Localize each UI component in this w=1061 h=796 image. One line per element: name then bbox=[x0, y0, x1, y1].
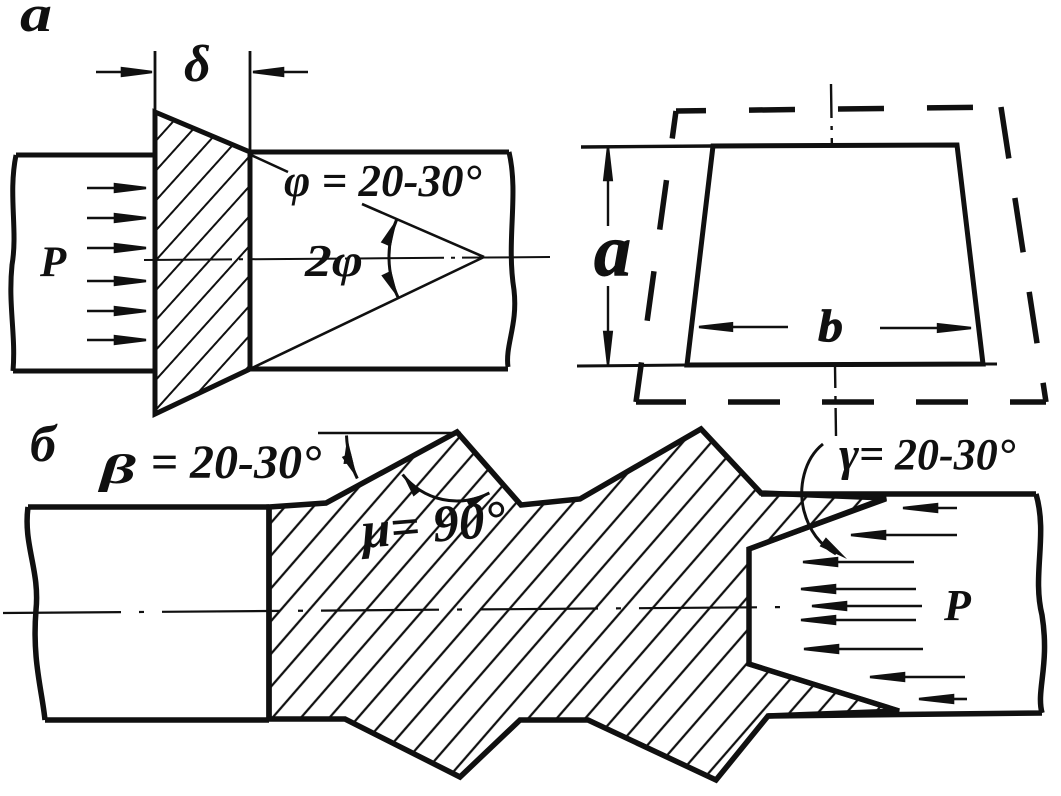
svg-text:b: b bbox=[818, 300, 843, 351]
wedge (hatched) of diagram a bbox=[155, 112, 250, 414]
svg-text:γ= 20-30°: γ= 20-30° bbox=[839, 428, 1016, 481]
2phi angle arc bbox=[389, 219, 398, 298]
vertical dash-dot centerline bbox=[831, 84, 836, 436]
dimension a arrows bbox=[604, 147, 612, 365]
force arrows P (right bar) bbox=[801, 504, 967, 703]
left bar of diagram a bbox=[11, 155, 154, 371]
svg-text:P: P bbox=[943, 581, 972, 630]
hatched middle piece (scarf joint) bbox=[269, 429, 899, 780]
right bar of diagram a bbox=[250, 152, 515, 369]
dashed trapezoid (initial blank outline) bbox=[636, 107, 1046, 402]
solid trapezoid (upset end) bbox=[687, 145, 983, 365]
svg-text:φ = 20-30°: φ = 20-30° bbox=[284, 156, 481, 206]
svg-text:2φ: 2φ bbox=[304, 235, 363, 286]
dimension b arrows bbox=[699, 323, 971, 332]
phi slant lines (wedge faces extended) bbox=[251, 155, 484, 368]
beta angle arc bbox=[347, 436, 358, 479]
2phi arc arrowheads bbox=[381, 219, 397, 247]
svg-text:P: P bbox=[39, 239, 67, 286]
thin reference line at peak bbox=[318, 432, 461, 434]
svg-text:a: a bbox=[20, 0, 52, 43]
joint vertical line bbox=[266, 507, 272, 720]
force arrows P (left bar) bbox=[87, 184, 146, 344]
extension lines for delta dimension bbox=[155, 51, 250, 150]
svg-text:б: б bbox=[30, 416, 58, 473]
centerline of diagram a bbox=[144, 257, 552, 260]
right bar of diagram b bbox=[761, 494, 1045, 716]
right bar wedge end bbox=[749, 499, 899, 711]
svg-text:a: a bbox=[594, 210, 631, 292]
gamma leader curved arrow bbox=[802, 444, 836, 554]
svg-text:= 20-30°: = 20-30° bbox=[141, 436, 321, 489]
centerline of diagram b bbox=[3, 607, 795, 613]
left bar of diagram b bbox=[27, 507, 269, 720]
delta dimension arrows bbox=[96, 68, 308, 76]
svg-text:β: β bbox=[97, 446, 136, 492]
svg-text:δ: δ bbox=[184, 36, 211, 93]
top extension line bbox=[581, 146, 713, 147]
mu angle arc bbox=[403, 475, 490, 502]
bottom extension line bbox=[577, 364, 997, 366]
